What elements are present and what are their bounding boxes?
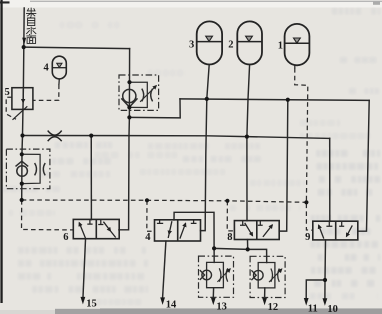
svg-text:14: 14 — [166, 299, 177, 310]
svg-text:3: 3 — [189, 40, 194, 51]
wire: accumulator 3 line down through H2 H3 to valve 7 right port — [201, 65, 210, 231]
svg-text:2: 2 — [228, 40, 233, 51]
accumulator 1 — [285, 24, 310, 65]
check valve seat — [121, 98, 137, 107]
node: bus valve7 — [145, 198, 149, 202]
node: feed valve8 — [246, 247, 250, 251]
pilot dashed accumulator 1 down to bus and valve 9 left — [295, 68, 313, 230]
node: bus left — [20, 198, 24, 202]
wire: valve 8 bottom port to feed line — [247, 240, 249, 250]
wire: accumulator 2 line down through H2 H3 to valve 8 top — [247, 65, 250, 221]
throttle arcs — [142, 89, 144, 102]
output arrow 11 — [304, 298, 309, 306]
accumulator 2 — [237, 21, 262, 64]
valve 5 pressure reducing — [12, 88, 33, 120]
wire: main supply vertical from top (来自水面) down to pilot bus start — [22, 8, 25, 200]
bypass wire through throttle — [129, 82, 147, 107]
wire: valve 8 right port up to H2 — [279, 100, 288, 231]
svg-text:11: 11 — [308, 304, 318, 314]
node: pump top — [20, 152, 24, 156]
svg-text:13: 13 — [216, 302, 227, 313]
wire: valve 9 bottom to split — [324, 240, 327, 280]
svg-text:1: 1 — [278, 41, 283, 52]
pilot dashed bus — [22, 200, 307, 202]
wire: H3 junction down to valve 6 top — [90, 136, 92, 220]
check-throttle unit top middle — [119, 75, 159, 110]
label 来自水面 hand drawn — [26, 8, 36, 44]
svg-text:9: 9 — [305, 232, 310, 243]
accumulator 1 stub — [294, 65, 296, 69]
flow arrow on supply line — [22, 38, 26, 45]
one-way throttle unit 13 — [199, 256, 234, 297]
node: bus valve8 — [225, 199, 229, 203]
accumulator 4 — [52, 56, 66, 79]
wire: split left branch to output 11 — [306, 280, 325, 298]
wire: branch from check unit to H2 — [129, 99, 180, 118]
wire: feed line to one-way throttle units 12 13 — [214, 248, 267, 262]
wire: right vertical from H2 down to valve 9 right port — [358, 100, 369, 231]
wire: H3 right corner down to valve 9 top — [329, 138, 331, 221]
pilot dashed loop at valve 5 — [6, 97, 16, 119]
svg-text:8: 8 — [227, 232, 232, 243]
output arrow 13 — [211, 298, 216, 306]
node: output split 10 11 — [323, 278, 327, 282]
pilot dashed to valve 8 left — [227, 201, 234, 231]
node: H3 acc2 — [245, 135, 249, 139]
node: check unit top — [127, 80, 131, 84]
wire: split down to output 10 — [324, 280, 326, 298]
svg-text:4: 4 — [44, 62, 50, 73]
wire: unit 13 exit to output 13 — [212, 288, 214, 298]
check valve circle — [123, 89, 136, 102]
one-way throttle unit 12 — [250, 256, 285, 297]
svg-text:12: 12 — [268, 302, 279, 313]
pilot dashed accumulator 4 to valve 5 — [33, 85, 59, 101]
pilot dashed to valve 7 left — [147, 200, 155, 231]
throttle orifice on H3 — [48, 131, 62, 142]
wire: H1 top horizontal from supply to check-throttle unit — [24, 47, 129, 48]
svg-text:15: 15 — [86, 299, 97, 310]
wire: valve 7 top loop over to feed line — [174, 212, 214, 248]
svg-text:4: 4 — [145, 232, 151, 243]
node: pump bottom — [20, 182, 24, 186]
wire: H3 long horizontal — [23, 136, 330, 139]
valve 7 directional — [155, 220, 201, 241]
node: H3 valve6 — [89, 134, 93, 138]
svg-text:6: 6 — [63, 232, 68, 243]
node: feed left — [212, 246, 216, 250]
accumulator 3 — [197, 21, 222, 64]
wire: vertical through check-throttle unit down to valve 6 right port — [119, 49, 130, 230]
output arrow 14 — [160, 297, 165, 305]
valve 6 directional — [73, 219, 119, 238]
node: branch to H2 — [127, 115, 131, 119]
output arrow 10 — [323, 298, 328, 306]
wire: valve 7 bottom to output 14 — [163, 241, 166, 297]
valve 9 directional — [313, 221, 358, 240]
scan border left bar — [0, 0, 2, 303]
pilot dashed to valve 6 left — [22, 200, 74, 230]
wire: valve 6 bottom to output 15 — [83, 240, 86, 297]
node: H3 left — [20, 133, 24, 137]
svg-text:10: 10 — [327, 304, 338, 314]
valve 8 directional — [234, 221, 279, 240]
output arrow 15 — [81, 297, 86, 305]
svg-text:5: 5 — [5, 87, 10, 98]
pump unit check-throttle bottom left — [6, 149, 50, 189]
output arrow 12 — [262, 298, 267, 306]
node: supply to H1 — [22, 45, 26, 49]
node: H2 valve8 drop — [286, 98, 290, 102]
node: bus valve9 acc1 — [304, 200, 308, 204]
scan border bottom band — [55, 309, 382, 314]
wire: H2 middle horizontal — [180, 99, 369, 101]
accumulator 4 stub — [58, 79, 60, 85]
node: H2 acc3 — [205, 97, 209, 101]
throttle adjust arrow — [140, 86, 156, 102]
wire: unit 12 exit to output 12 — [264, 288, 266, 298]
wire: unit 13 feed drop — [213, 248, 215, 262]
node: check unit bottom — [127, 105, 131, 109]
scan border top-left tick — [0, 1, 10, 3]
